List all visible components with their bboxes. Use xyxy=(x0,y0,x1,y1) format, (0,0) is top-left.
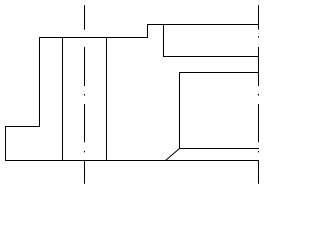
wire inner vertical line 2 xyxy=(106,37,108,161)
centerline right axis dash 4 xyxy=(258,161,260,184)
centerline left axis dot 1 xyxy=(84,94,86,96)
wire top edge right section xyxy=(147,24,259,26)
centerline left axis dot 2 xyxy=(84,151,86,153)
wire recess vertical at x=179.5 xyxy=(179,72,181,149)
centerline right axis dot 3 xyxy=(258,151,260,153)
wire left vertical upper xyxy=(39,37,41,127)
wire bore vertical at x=163.5 xyxy=(163,24,165,57)
wire inner vertical line 1 xyxy=(62,37,64,161)
centerline right axis dash 1 xyxy=(258,5,260,30)
wire recess bottom horizontal at y=148.5 xyxy=(179,148,259,150)
centerline left axis dash 4 xyxy=(84,161,86,184)
wire top edge of left flange xyxy=(39,37,148,39)
centerline right axis dot 1 xyxy=(258,36,260,38)
wire step up at x=147 xyxy=(147,24,149,38)
wire bore horizontal at y=56.5 xyxy=(163,56,259,58)
wire recess top horizontal at y=72.5 xyxy=(179,72,259,74)
centerline right axis dot 2 xyxy=(258,94,260,96)
centerline right axis dash 2 xyxy=(258,47,260,86)
centerline left axis dash 3 xyxy=(84,104,86,142)
centerline left axis dash 2 xyxy=(84,47,86,86)
centerline left axis dash 1 xyxy=(84,5,86,30)
wire step shoulder horizontal xyxy=(5,126,40,128)
wire chamfer diagonal xyxy=(166,149,180,161)
wire left vertical lower xyxy=(5,126,7,161)
centerline right axis dash 3 xyxy=(258,104,260,142)
wire bottom edge xyxy=(5,160,259,162)
